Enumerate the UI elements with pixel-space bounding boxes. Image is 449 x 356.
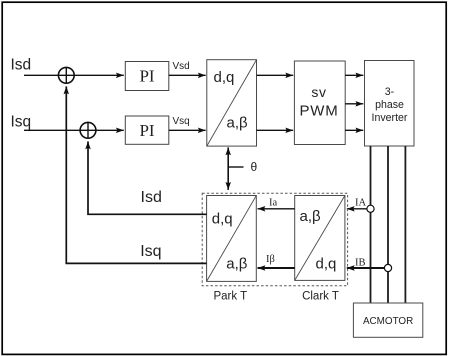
wire Isd feedback Park to summing junction S2 [88, 147, 207, 215]
svg-text:phase: phase [375, 99, 404, 111]
wire PI2 to inverse Park [169, 129, 206, 131]
wire PI1 to inverse Park [169, 74, 206, 76]
wire svPWM to inverter 1 [345, 74, 363, 76]
svg-text:PI: PI [139, 67, 154, 86]
svg-text:Inverter: Inverter [372, 112, 408, 124]
wire phase C vertical [404, 146, 406, 303]
wire IB to Clark [347, 267, 385, 269]
wire Isq feedback Park to summing junction S1 [66, 92, 206, 263]
block 3-phase inverter [365, 61, 415, 147]
dashed boundary around Park and Clark [202, 193, 347, 286]
svg-text:Vsq: Vsq [173, 116, 190, 127]
svg-text:Clark T: Clark T [302, 291, 339, 303]
block Clark T [295, 196, 345, 281]
wire Isq input through summing junction S2 into PI2 [24, 129, 124, 131]
wire inverse Park to svPWM bottom [257, 129, 294, 131]
svg-text:d,q: d,q [214, 69, 235, 86]
svg-text:d,q: d,q [316, 256, 337, 273]
svg-text:Isd: Isd [141, 189, 162, 206]
svg-text:Vsd: Vsd [173, 61, 190, 72]
wire Isd input through summing junction S1 into PI1 [24, 74, 124, 76]
svg-text:PI: PI [139, 121, 154, 140]
svg-text:Ia: Ia [269, 198, 277, 209]
svg-text:Isq: Isq [11, 113, 32, 130]
wire phase A vertical [370, 146, 372, 303]
svg-text:Isd: Isd [11, 57, 32, 74]
theta tick [228, 166, 243, 168]
svg-text:Park T: Park T [213, 291, 247, 303]
svg-text:d,q: d,q [212, 210, 233, 227]
svg-text:Iβ: Iβ [266, 254, 275, 265]
svg-text:a,β: a,β [226, 256, 248, 273]
wire inverse Park to svPWM top [257, 74, 294, 76]
wire Ibeta Clark to Park [258, 267, 295, 269]
svg-text:IB: IB [355, 257, 366, 268]
svg-text:PWM: PWM [299, 103, 338, 120]
svg-text:a,β: a,β [227, 115, 249, 132]
svg-text:a,β: a,β [300, 208, 322, 225]
theta double arrow wire [227, 154, 229, 183]
block sv PWM [294, 61, 345, 145]
summing junction S1 [58, 67, 74, 83]
wire svPWM to inverter 2 [345, 103, 363, 105]
svg-text:IA: IA [355, 197, 366, 208]
block ACMOTOR [353, 303, 422, 337]
wire svPWM to inverter 3 [345, 129, 363, 131]
wire phase B vertical [387, 146, 389, 303]
svg-text:sv: sv [311, 84, 326, 100]
block inverse Park transform U1 [207, 60, 257, 146]
node IA tap [367, 205, 374, 212]
wire Ia Clark to Park [258, 208, 295, 210]
block PI2 [125, 116, 169, 144]
node IB tap [384, 264, 391, 271]
block Park T [207, 196, 257, 282]
block PI1 [125, 62, 169, 91]
svg-text:θ: θ [251, 160, 258, 174]
svg-text:ACMOTOR: ACMOTOR [363, 316, 413, 327]
summing junction S2 [80, 122, 96, 138]
wire IA to Clark [347, 208, 367, 210]
svg-text:Isq: Isq [140, 243, 161, 260]
svg-text:3-: 3- [385, 86, 395, 98]
